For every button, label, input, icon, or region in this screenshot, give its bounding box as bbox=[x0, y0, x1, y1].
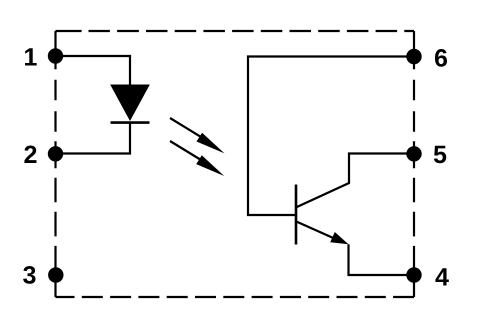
wire pin5 to transistor collector bbox=[296, 154, 414, 208]
node pin 4 dot bbox=[406, 267, 421, 282]
diode D1 cathode bar bbox=[111, 121, 150, 124]
node pin 6 dot bbox=[406, 49, 421, 64]
pin label 6 bbox=[435, 49, 447, 67]
pin label 4 bbox=[435, 268, 448, 285]
pin label 1 bbox=[25, 48, 37, 65]
package outline (dashed box) bbox=[56, 31, 415, 297]
transistor Q1 emitter with arrow bbox=[296, 222, 348, 245]
wire bottom dashed border bbox=[56, 296, 415, 298]
wire right dashed border bbox=[413, 31, 415, 297]
transistor Q1 base bar bbox=[295, 185, 298, 245]
wire LED cathode to pin2 bbox=[56, 123, 131, 154]
node pin 2 dot bbox=[48, 146, 63, 161]
light arrow 1 bbox=[170, 118, 225, 153]
wire emitter to pin4 bbox=[349, 244, 415, 275]
pin label 2 bbox=[24, 146, 36, 163]
wire top dashed border bbox=[56, 30, 415, 32]
wire left dashed border bbox=[54, 31, 56, 297]
pin label 5 bbox=[434, 146, 446, 163]
node pin 1 dot bbox=[48, 48, 63, 63]
light arrow 2 bbox=[170, 141, 224, 176]
diode D1 LED triangle bbox=[111, 85, 149, 120]
node pin 5 dot bbox=[406, 146, 421, 161]
wire pin1 to LED anode bbox=[56, 56, 131, 85]
pin label 3 bbox=[23, 266, 35, 284]
node pin 3 dot bbox=[48, 267, 63, 282]
wire pin6 to transistor base bbox=[248, 57, 414, 216]
